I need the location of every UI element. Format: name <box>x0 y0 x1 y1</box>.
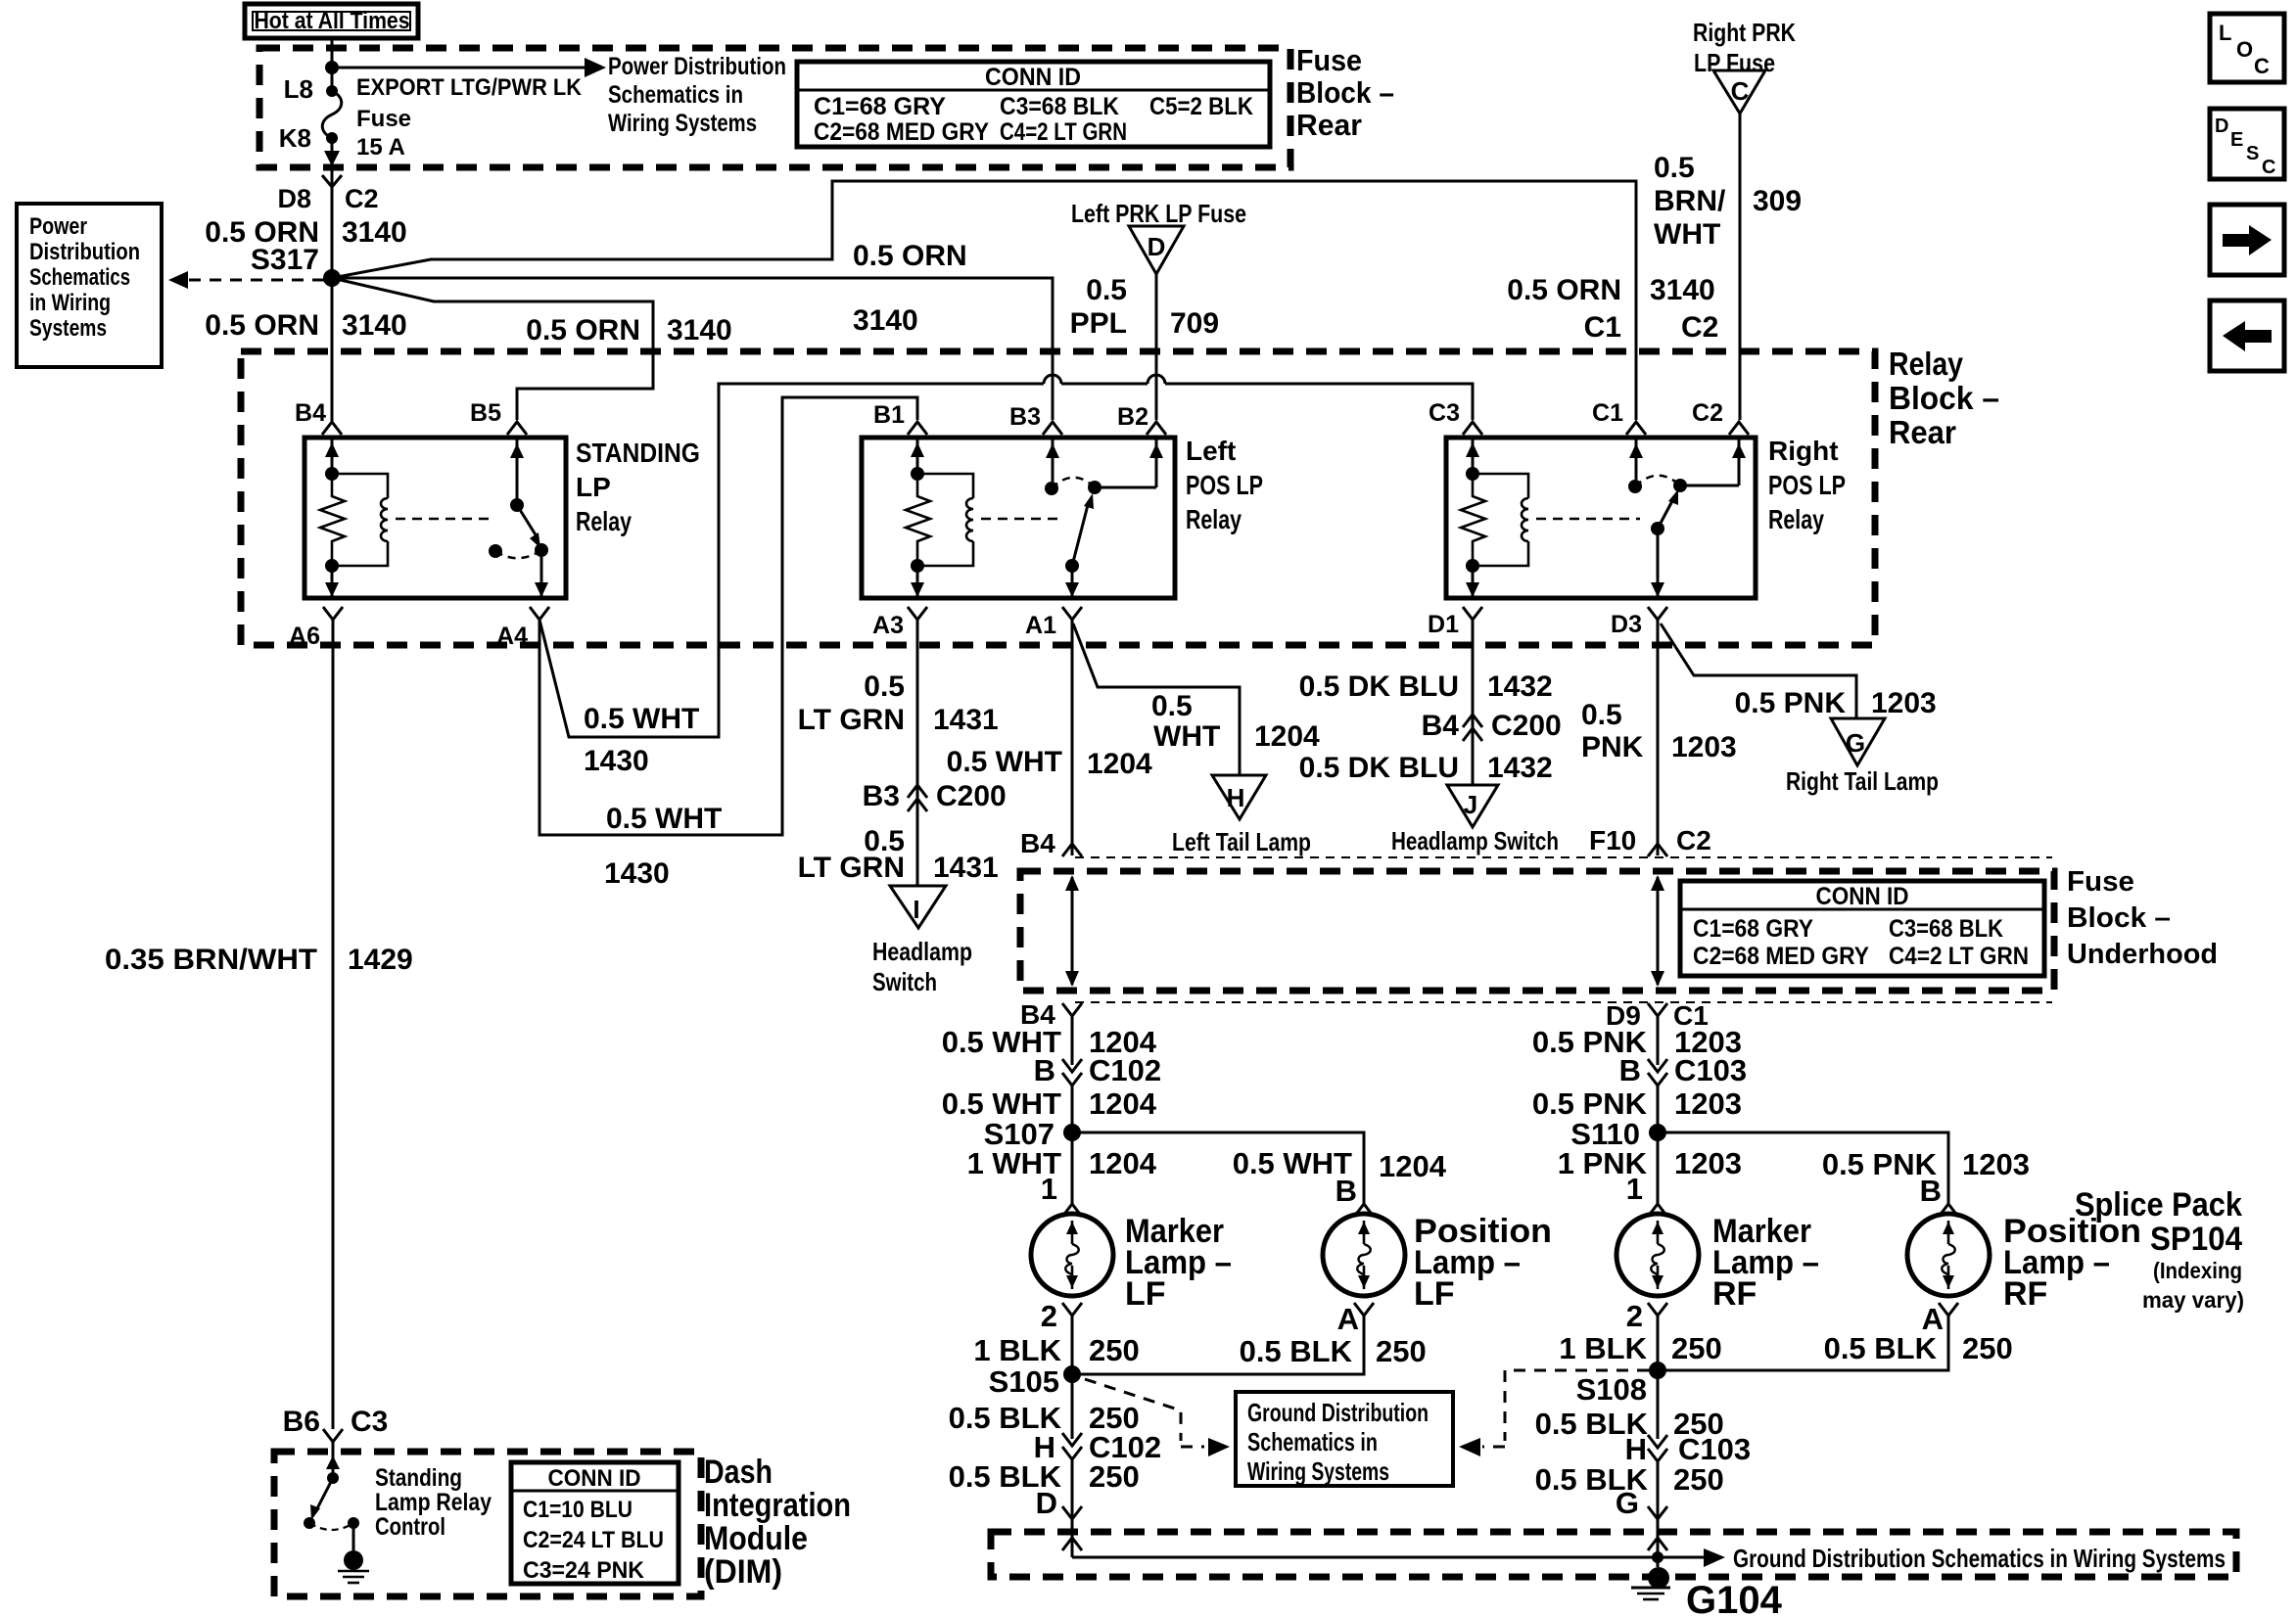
svg-text:B4: B4 <box>295 399 326 427</box>
svg-text:B1: B1 <box>873 401 905 429</box>
svg-text:0.5 BLK: 0.5 BLK <box>1240 1334 1353 1368</box>
lamp: Position Lamp RF <box>1907 1213 2141 1313</box>
svg-text:G: G <box>1846 728 1865 758</box>
svg-text:2: 2 <box>1626 1299 1643 1333</box>
svg-text:C4=2 LT GRN: C4=2 LT GRN <box>1889 943 2029 970</box>
wire D9 to C103 (0.5 PNK 1203) <box>1657 1016 1660 1065</box>
svg-text:A: A <box>1337 1302 1359 1336</box>
nav box left arrow <box>2210 300 2284 371</box>
coil-switch dashed link <box>1536 518 1640 521</box>
svg-text:C1=68 GRY: C1=68 GRY <box>1693 915 1813 943</box>
svg-text:B6: B6 <box>283 1406 320 1438</box>
svg-text:A4: A4 <box>496 623 528 650</box>
wire 0.5 ORN 3140 to S317 <box>331 168 334 278</box>
svg-text:C2: C2 <box>345 184 379 213</box>
svg-text:0.5 DK BLU: 0.5 DK BLU <box>1299 752 1459 784</box>
ground inside DIM <box>338 1523 369 1583</box>
svg-text:3140: 3140 <box>342 216 407 249</box>
svg-text:PPL: PPL <box>1070 307 1127 340</box>
svg-text:L: L <box>2219 21 2231 45</box>
svg-text:Lamp Relay: Lamp Relay <box>375 1489 492 1516</box>
svg-text:309: 309 <box>1753 185 1802 217</box>
nav box right arrow <box>2210 205 2284 275</box>
svg-text:STANDING: STANDING <box>576 438 700 468</box>
wire D3 branch to Right Tail Lamp G (0.5 PNK 1203) <box>1661 624 1856 718</box>
svg-text:(Indexing: (Indexing <box>2153 1258 2242 1283</box>
svg-text:B3: B3 <box>1009 403 1041 431</box>
coil branch B4-A6 <box>320 438 388 598</box>
svg-text:1204: 1204 <box>1087 748 1152 780</box>
svg-text:LT GRN: LT GRN <box>798 704 905 736</box>
svg-text:0.5 WHT: 0.5 WHT <box>606 803 722 835</box>
dashed pointer from S105 <box>1085 1379 1181 1441</box>
ground bus wire with arrow <box>1072 1556 1704 1559</box>
svg-text:LF: LF <box>1414 1275 1455 1313</box>
wire S317 down to B4 <box>331 278 334 421</box>
svg-text:0.5 DK BLU: 0.5 DK BLU <box>1299 670 1459 703</box>
svg-text:H: H <box>1625 1432 1647 1466</box>
svg-text:G104: G104 <box>1686 1579 1783 1617</box>
wire C103 to G104 (0.5 BLK 250) <box>1657 1461 1660 1567</box>
svg-text:0.5: 0.5 <box>1654 152 1695 184</box>
underhood exit thin dashed <box>1075 1001 2052 1003</box>
wire S317 to B3 left relay (0.5 ORN 3140) <box>332 278 1053 420</box>
svg-text:250: 250 <box>1089 1459 1140 1494</box>
svg-text:1204: 1204 <box>1089 1086 1157 1121</box>
svg-text:D: D <box>1036 1486 1057 1520</box>
svg-text:C3: C3 <box>1429 399 1460 427</box>
svg-text:C200: C200 <box>1491 710 1562 742</box>
svg-text:Relay: Relay <box>576 506 632 536</box>
svg-text:C1=68 GRY: C1=68 GRY <box>814 93 946 120</box>
svg-text:K8: K8 <box>279 123 311 153</box>
svg-text:Underhood: Underhood <box>2067 939 2218 970</box>
svg-text:Control: Control <box>375 1513 445 1541</box>
CONN ID table (rear) <box>797 62 1270 147</box>
svg-text:Module: Module <box>704 1520 808 1557</box>
svg-text:S105: S105 <box>989 1364 1059 1399</box>
DIM dashed border <box>274 1452 701 1596</box>
svg-text:Rear: Rear <box>1296 108 1362 142</box>
node at bus <box>325 61 339 74</box>
svg-text:Standing: Standing <box>375 1464 462 1492</box>
CONN ID table (underhood) <box>1680 881 2044 976</box>
svg-text:Fuse: Fuse <box>356 106 411 132</box>
svg-text:BRN/: BRN/ <box>1654 185 1726 217</box>
svg-text:15 A: 15 A <box>356 134 405 161</box>
nav box DESC <box>2210 109 2284 179</box>
svg-text:Headlamp Switch: Headlamp Switch <box>1391 826 1559 855</box>
fuse element F10 (double arrow) <box>1651 875 1664 987</box>
wire into ground bus right <box>1648 1538 1667 1550</box>
svg-text:G: G <box>1616 1486 1639 1520</box>
svg-text:A1: A1 <box>1025 612 1056 639</box>
fuse element B4 (double arrow) <box>1065 875 1079 987</box>
svg-text:WHT: WHT <box>1153 720 1220 753</box>
svg-text:0.5 WHT: 0.5 WHT <box>947 746 1062 778</box>
wire C102 to S107 (0.5 WHT 1204) <box>1071 1086 1074 1204</box>
wire S317 to C1 right relay (0.5 ORN 3140) <box>332 181 1636 420</box>
ground G104 <box>1631 1567 1783 1617</box>
svg-text:C2: C2 <box>1681 311 1718 344</box>
svg-text:Dash: Dash <box>704 1454 773 1491</box>
svg-text:D: D <box>1148 232 1166 261</box>
svg-text:C4=2 LT GRN: C4=2 LT GRN <box>1000 118 1127 146</box>
svg-text:Block –: Block – <box>1296 75 1394 110</box>
svg-text:EXPORT LTG/PWR LK: EXPORT LTG/PWR LK <box>356 74 583 101</box>
svg-text:D1: D1 <box>1428 611 1459 638</box>
svg-text:C2: C2 <box>1692 399 1723 427</box>
svg-text:0.5: 0.5 <box>1151 690 1193 722</box>
node at bus <box>1652 1551 1663 1563</box>
svg-text:RF: RF <box>1712 1275 1757 1313</box>
svg-text:Block –: Block – <box>2067 902 2171 934</box>
svg-text:S: S <box>2246 143 2259 164</box>
DIM label <box>704 1454 851 1591</box>
svg-text:in Wiring: in Wiring <box>29 290 111 316</box>
svg-text:B3: B3 <box>863 780 900 812</box>
relay K1: STANDING LP Relay box <box>305 438 566 598</box>
wire A4 to C3 right relay (0.5 WHT 1430) <box>539 384 1044 737</box>
reference box: Ground Distribution <box>1236 1392 1453 1486</box>
pin A <box>1939 1303 1958 1316</box>
svg-text:C2=68 MED GRY: C2=68 MED GRY <box>1693 943 1869 970</box>
wire A6 to B6 (0.35 BRN/WHT 1429) <box>332 620 335 1429</box>
standing lamp relay control switch <box>304 1442 359 1530</box>
svg-text:3140: 3140 <box>853 304 918 337</box>
triangle G: Right Tail Lamp <box>1786 718 1939 796</box>
coil-switch dashed link <box>981 518 1062 521</box>
svg-text:Power Distribution: Power Distribution <box>608 53 786 80</box>
pin 2 <box>1648 1303 1667 1316</box>
svg-text:C103: C103 <box>1678 1432 1751 1466</box>
resistor <box>320 474 345 566</box>
svg-text:I: I <box>913 895 919 924</box>
wire pin A to S108 (0.5 BLK 250) <box>1658 1316 1948 1370</box>
wire S107 branch to Position LF pin B (0.5 WHT 1204) <box>1072 1132 1364 1204</box>
svg-text:Ground Distribution Schematics: Ground Distribution Schematics in Wiring… <box>1733 1544 2226 1573</box>
svg-text:CONN ID: CONN ID <box>1816 883 1909 910</box>
svg-text:B5: B5 <box>470 399 501 427</box>
wire pin2 to S108 (1 BLK 250) <box>1657 1316 1660 1439</box>
svg-text:2: 2 <box>1041 1299 1057 1333</box>
svg-text:1: 1 <box>1626 1172 1643 1206</box>
svg-text:A3: A3 <box>872 612 904 639</box>
svg-text:0.5: 0.5 <box>1581 699 1622 731</box>
svg-text:B: B <box>1619 1053 1641 1087</box>
svg-text:C: C <box>1731 76 1750 106</box>
svg-text:B4: B4 <box>1422 710 1460 742</box>
switch B5-A4 <box>489 438 548 598</box>
triangle H: Left Tail Lamp <box>1172 775 1311 856</box>
lamp: Position Lamp LF <box>1323 1213 1552 1313</box>
svg-text:C3=68 BLK: C3=68 BLK <box>1889 915 2003 943</box>
svg-text:Schematics in: Schematics in <box>608 81 743 109</box>
coil branch B1-A3 <box>906 438 973 598</box>
svg-text:C1: C1 <box>1584 311 1621 344</box>
wire arrow to Power Distribution <box>332 67 586 69</box>
svg-text:Headlamp: Headlamp <box>872 937 972 966</box>
svg-text:Relay: Relay <box>1768 504 1824 534</box>
svg-text:0.5: 0.5 <box>864 670 905 703</box>
coil-switch dashed link <box>396 518 490 521</box>
wire C103 to S110 (0.5 PNK 1203) <box>1657 1086 1660 1204</box>
svg-text:0.5 ORN: 0.5 ORN <box>1507 274 1621 306</box>
Relay Block Rear dashed border <box>241 351 1875 645</box>
pin 2 <box>1062 1303 1082 1316</box>
wire S110 branch to Position RF pin B (0.5 PNK 1203) <box>1658 1132 1948 1204</box>
svg-text:Left: Left <box>1186 436 1236 466</box>
svg-text:C2=68 MED GRY: C2=68 MED GRY <box>814 118 989 146</box>
label Fuse Block - Rear <box>1296 43 1394 142</box>
svg-text:C: C <box>2262 157 2275 178</box>
svg-text:LF: LF <box>1125 1275 1166 1313</box>
svg-text:A6: A6 <box>289 623 320 650</box>
CONN ID table (DIM) <box>511 1462 679 1584</box>
svg-text:Wiring Systems: Wiring Systems <box>608 110 757 137</box>
svg-text:B: B <box>1920 1174 1942 1208</box>
svg-text:C: C <box>2254 54 2270 78</box>
svg-text:250: 250 <box>1962 1331 2013 1365</box>
svg-text:Splice Pack: Splice Pack <box>2075 1186 2242 1224</box>
Fuse Block Underhood dashed border <box>1020 871 2054 991</box>
svg-text:709: 709 <box>1170 307 1219 340</box>
wire pin2 to S105 (1 BLK 250) <box>1071 1316 1074 1439</box>
svg-text:Right Tail Lamp: Right Tail Lamp <box>1786 766 1939 796</box>
svg-text:LP: LP <box>576 472 611 502</box>
svg-text:3140: 3140 <box>667 314 732 346</box>
relay K3: Right POS LP Relay box <box>1446 438 1756 598</box>
connector chevron below fuse block <box>322 175 342 187</box>
svg-text:B: B <box>1034 1053 1055 1087</box>
svg-text:Block –: Block – <box>1889 380 1999 416</box>
wire 0.5 PPL 709 to B2 <box>1155 274 1158 420</box>
svg-text:Wiring Systems: Wiring Systems <box>1247 1456 1389 1486</box>
svg-text:LT GRN: LT GRN <box>798 852 905 884</box>
svg-text:B: B <box>1335 1174 1357 1208</box>
svg-text:F10: F10 <box>1589 825 1636 855</box>
svg-text:C5=2 BLK: C5=2 BLK <box>1149 93 1253 120</box>
svg-text:RF: RF <box>2003 1275 2047 1313</box>
svg-text:0.5 PNK: 0.5 PNK <box>1735 687 1847 719</box>
svg-text:PNK: PNK <box>1581 731 1644 763</box>
svg-text:0.5 WHT: 0.5 WHT <box>942 1086 1061 1121</box>
svg-text:POS LP: POS LP <box>1186 470 1263 500</box>
svg-text:S317: S317 <box>251 244 319 276</box>
power label box: Hot at All Times <box>245 4 418 38</box>
svg-text:1432: 1432 <box>1487 670 1553 703</box>
svg-text:Systems: Systems <box>29 315 107 342</box>
dashed pointer from S108 <box>1505 1370 1649 1441</box>
fuse triangle C: Right PRK LP Fuse <box>1693 18 1796 114</box>
svg-text:250: 250 <box>1671 1331 1722 1365</box>
svg-text:Fuse: Fuse <box>2067 866 2134 898</box>
fuse triangle D: Left PRK LP Fuse <box>1071 199 1246 274</box>
svg-text:1204: 1204 <box>1379 1149 1447 1183</box>
svg-text:Fuse: Fuse <box>1296 43 1362 77</box>
svg-text:CONN ID: CONN ID <box>548 1465 641 1492</box>
svg-text:J: J <box>1464 790 1477 819</box>
svg-text:CONN ID: CONN ID <box>985 64 1081 91</box>
lamp: Marker Lamp RF <box>1617 1213 1819 1313</box>
svg-text:L8: L8 <box>284 74 313 104</box>
svg-text:1203: 1203 <box>1871 687 1937 719</box>
svg-text:D: D <box>2215 115 2228 137</box>
svg-text:SP104: SP104 <box>2150 1221 2242 1258</box>
svg-text:B4: B4 <box>1020 828 1055 858</box>
svg-text:0.5 BLK: 0.5 BLK <box>1824 1331 1938 1365</box>
switch: B3 contact, B2 contact, A1 common <box>1045 438 1163 598</box>
reference box: Power Distribution Schematics in Wiring Systems <box>17 204 162 367</box>
wire A1 down to underhood B4 (0.5 WHT 1204) <box>1071 620 1074 855</box>
svg-text:C103: C103 <box>1674 1053 1747 1087</box>
svg-text:0.5 ORN: 0.5 ORN <box>526 314 640 346</box>
svg-text:0.5: 0.5 <box>1086 274 1127 306</box>
svg-text:H: H <box>1227 783 1245 812</box>
svg-text:Right PRK: Right PRK <box>1693 18 1796 47</box>
svg-text:Distribution: Distribution <box>29 239 140 265</box>
triangle J: Headlamp Switch <box>1391 785 1559 855</box>
svg-text:Left Tail Lamp: Left Tail Lamp <box>1172 827 1311 856</box>
svg-text:0.5 WHT: 0.5 WHT <box>584 703 699 735</box>
wire D3 to underhood F10 (0.5 PNK 1203) <box>1657 620 1660 855</box>
wire from Hot bus to fuse <box>331 38 334 91</box>
triangle I: Headlamp Switch <box>872 886 972 996</box>
svg-text:C3=24 PNK: C3=24 PNK <box>523 1557 645 1584</box>
wire A4 to B1 left relay (0.5 WHT 1430) <box>539 397 917 835</box>
wire fuse output arrow <box>331 138 334 162</box>
svg-text:Schematics: Schematics <box>29 264 130 291</box>
svg-text:3140: 3140 <box>342 309 407 342</box>
svg-text:3140: 3140 <box>1650 274 1715 306</box>
switch: C1 contact, C2 contact, D3 common <box>1628 438 1746 598</box>
svg-text:1203: 1203 <box>1671 731 1737 763</box>
svg-text:1430: 1430 <box>584 745 649 777</box>
wire C102 to ground (0.5 BLK 250) <box>1071 1459 1074 1557</box>
svg-text:Relay: Relay <box>1186 504 1242 534</box>
Splice Pack SP104 label <box>2075 1186 2244 1313</box>
wire B4 to C102 (0.5 WHT 1204) <box>1071 1016 1074 1065</box>
svg-text:Switch: Switch <box>872 967 937 996</box>
wire D1 to Headlamp Switch J (0.5 DK BLU 1432) <box>1472 620 1475 785</box>
svg-text:S108: S108 <box>1576 1372 1647 1407</box>
svg-text:1204: 1204 <box>1089 1146 1157 1180</box>
wire 0.5 BRN/WHT 309 to C2 <box>1739 114 1742 420</box>
svg-text:1432: 1432 <box>1487 752 1553 784</box>
wire S317 to B5 standing relay (0.5 ORN 3140) <box>332 278 653 420</box>
svg-text:1203: 1203 <box>1674 1086 1742 1121</box>
ground distribution dashed border <box>991 1532 2236 1577</box>
svg-text:Right: Right <box>1768 436 1839 466</box>
svg-text:Rear: Rear <box>1889 414 1956 450</box>
svg-text:C3=68 BLK: C3=68 BLK <box>1000 93 1119 120</box>
svg-text:(DIM): (DIM) <box>704 1553 782 1591</box>
svg-text:1 BLK: 1 BLK <box>1559 1331 1647 1365</box>
svg-text:Relay: Relay <box>1889 346 1964 382</box>
svg-text:Integration: Integration <box>704 1487 851 1524</box>
wire A3 to Headlamp Switch I (0.5 LT GRN 1431) <box>916 620 919 886</box>
Fuse Block Rear dashed border <box>259 48 1290 167</box>
svg-text:POS LP: POS LP <box>1768 470 1846 500</box>
svg-text:1 BLK: 1 BLK <box>973 1333 1061 1367</box>
svg-text:D3: D3 <box>1611 611 1642 638</box>
svg-text:O: O <box>2236 37 2253 62</box>
lamp: Marker Lamp LF <box>1031 1213 1232 1313</box>
svg-text:250: 250 <box>1376 1334 1427 1368</box>
svg-text:WHT: WHT <box>1654 218 1720 251</box>
svg-text:C200: C200 <box>936 780 1007 812</box>
svg-text:Ground Distribution: Ground Distribution <box>1247 1398 1429 1427</box>
wire pin A to S105 (0.5 BLK 250) <box>1072 1316 1364 1374</box>
svg-text:Left PRK LP Fuse: Left PRK LP Fuse <box>1071 199 1246 228</box>
svg-text:Schematics in: Schematics in <box>1247 1427 1378 1456</box>
svg-text:Hot at All Times: Hot at All Times <box>255 8 410 34</box>
svg-text:D8: D8 <box>277 184 311 213</box>
svg-text:C2=24 LT BLU: C2=24 LT BLU <box>523 1527 664 1553</box>
svg-text:C1=10 BLU: C1=10 BLU <box>523 1497 633 1523</box>
svg-text:0.5 ORN: 0.5 ORN <box>205 309 319 342</box>
svg-text:250: 250 <box>1089 1333 1140 1367</box>
svg-text:1204: 1204 <box>1254 720 1320 753</box>
coil <box>332 474 388 498</box>
svg-text:Power: Power <box>29 213 87 240</box>
svg-text:1431: 1431 <box>933 852 999 884</box>
svg-text:C3: C3 <box>351 1406 388 1438</box>
relay K2: Left POS LP Relay box <box>862 438 1175 598</box>
wire A1 branch to Left Tail Lamp H (0.5 WHT 1204) <box>1073 624 1240 775</box>
svg-text:250: 250 <box>1673 1462 1724 1497</box>
nav box LOC <box>2210 14 2284 82</box>
svg-text:E: E <box>2230 129 2243 151</box>
svg-text:1430: 1430 <box>604 857 670 890</box>
svg-text:0.35 BRN/WHT: 0.35 BRN/WHT <box>105 944 317 976</box>
svg-text:1203: 1203 <box>1962 1147 2030 1181</box>
svg-text:C102: C102 <box>1089 1053 1161 1087</box>
svg-text:may vary): may vary) <box>2142 1287 2244 1313</box>
wire into ground bus left <box>1062 1538 1082 1550</box>
fuse EXPORT LTG/PWR LK 15A <box>322 85 342 144</box>
svg-text:1: 1 <box>1041 1172 1057 1206</box>
splice S108 <box>1649 1362 1666 1379</box>
underhood connector row thin dashed <box>1075 856 2052 858</box>
svg-text:0.5 PNK: 0.5 PNK <box>1532 1086 1648 1121</box>
svg-text:0.5 ORN: 0.5 ORN <box>853 240 967 272</box>
svg-text:C1: C1 <box>1592 399 1623 427</box>
svg-text:1431: 1431 <box>933 704 999 736</box>
svg-text:C2: C2 <box>1676 825 1711 855</box>
dashed reference arrow to Power Distribution box <box>184 279 324 282</box>
pin A <box>1354 1303 1374 1316</box>
coil branch C3-D1 <box>1461 438 1528 598</box>
svg-text:B2: B2 <box>1117 403 1148 431</box>
svg-text:1429: 1429 <box>348 944 413 976</box>
svg-text:1203: 1203 <box>1674 1146 1742 1180</box>
